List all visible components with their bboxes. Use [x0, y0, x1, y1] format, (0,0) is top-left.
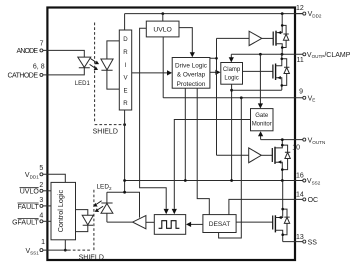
svg-text:Protection: Protection [177, 81, 206, 88]
svg-text:9: 9 [299, 89, 303, 96]
arrowhead into clamp logic top [229, 57, 234, 62]
wire: drive logic to clamp logic [210, 71, 216, 73]
svg-text:OC: OC [308, 197, 319, 204]
wire: VDD1 into control logic [43, 174, 65, 182]
svg-text:16: 16 [296, 173, 304, 180]
junction on VDD2 rail at UVLO [161, 12, 164, 15]
transistor Q2 (clamp MOSFET) [273, 54, 290, 90]
shield dashed line (upper) [95, 23, 123, 125]
pin 14 OC [296, 192, 318, 204]
wire: clamp source line [232, 89, 282, 91]
svg-text:R: R [123, 100, 128, 107]
UVLO box [146, 21, 179, 37]
svg-text:ANODE: ANODE [17, 48, 39, 55]
wire: SS line [283, 241, 303, 243]
junction VSS2 at clamp leg [230, 179, 233, 182]
wire: drive logic to DESAT [197, 88, 209, 214]
junction VSS2 at Q3/Q4 [281, 179, 284, 182]
svg-text:FAULT: FAULT [18, 204, 40, 211]
svg-text:Gate: Gate [255, 113, 269, 119]
wire: VOUTN bus [261, 139, 303, 141]
wire: VOUTP sense into clamp logic top [230, 54, 232, 57]
wire: buffer P input [217, 37, 250, 39]
LED1 light arrows [90, 59, 100, 71]
arrowhead into drive logic top [190, 52, 195, 57]
wire: control logic to VSS1 [64, 240, 66, 250]
gate monitor box U8 [251, 109, 274, 131]
svg-text:Clamp: Clamp [223, 67, 241, 73]
svg-text:D: D [123, 36, 128, 43]
wire: GFAULT pin to control logic [43, 220, 51, 222]
svg-text:GFAULT: GFAULT [12, 219, 39, 226]
wire: drive logic to output buffers [210, 38, 217, 155]
wire: driver to drive logic [132, 72, 168, 74]
junction: shield to driver return [123, 123, 126, 126]
svg-text:E: E [123, 87, 127, 94]
svg-text:SHIELD: SHIELD [93, 128, 118, 135]
wire: gate monitor bottom feed [260, 136, 262, 140]
pin 13 SS [296, 234, 317, 247]
wire: buffer U2 to Q1 gate [262, 37, 273, 39]
wire: VDD2 rail [125, 13, 303, 15]
driver U1 [119, 30, 131, 110]
DESAT box U9 [203, 215, 236, 233]
wire: VOUTP bus [231, 53, 302, 55]
wire: DESAT to Q4 gate [236, 221, 273, 223]
wire: driver bottom return [124, 110, 126, 192]
svg-text:1: 1 [41, 239, 45, 246]
svg-text:7: 7 [40, 40, 44, 47]
wire: UVLO to drive logic [179, 28, 192, 53]
transistor Q4 (SS MOSFET) [273, 181, 290, 242]
svg-text:SHIELD: SHIELD [79, 255, 104, 262]
svg-text:Drive Logic: Drive Logic [175, 62, 208, 69]
pin 3 FAULT [18, 197, 44, 211]
svg-text:11: 11 [297, 57, 304, 64]
wire: buffer N input [217, 154, 249, 156]
wire: DESAT bottom tie to VE [219, 98, 242, 238]
junction VOUTP at Q1/Q2 [281, 53, 284, 56]
wire: VSS1 line [43, 249, 68, 251]
pin 4 GFAULT [12, 213, 43, 227]
LED2 [97, 184, 113, 223]
wire: UVLO pin to control logic [43, 190, 51, 192]
svg-text:13: 13 [296, 234, 304, 241]
buffer U2 (VOUTP) [249, 31, 262, 45]
junction VSS1 [64, 249, 67, 252]
arrowhead into drive logic left [167, 70, 172, 75]
drive logic & overlap protection box U6 [172, 58, 210, 89]
wire: buffer U4 to LED2 anode [107, 221, 133, 223]
transistor Q1 (pull-up MOSFET) [273, 14, 289, 55]
wire: UVLO bottom to VE [162, 37, 164, 98]
wire: FAULT pin to control logic [43, 205, 51, 207]
junction VSS2 at driver return [123, 179, 126, 182]
svg-text:I: I [125, 62, 127, 69]
svg-text:4: 4 [39, 213, 43, 220]
arrowhead into gate monitor top [258, 103, 263, 108]
svg-text:CATHODE: CATHODE [8, 73, 39, 80]
junction LED2 rail / driver return [123, 191, 126, 194]
pin 16 VSS2 [296, 173, 321, 186]
svg-text:Monitor: Monitor [252, 121, 272, 127]
svg-text:5: 5 [39, 165, 43, 172]
wire: drive logic ground leg [184, 88, 186, 180]
junction clamp source [230, 89, 233, 92]
photodiode PD1 [101, 41, 120, 89]
junction VSS2 at drive logic leg [184, 179, 187, 182]
wire: VSS2 bus [125, 180, 303, 182]
svg-text:3: 3 [39, 197, 43, 204]
svg-text:10: 10 [292, 144, 300, 151]
wire: gate monitor top feed [259, 54, 261, 103]
arrowhead into pulse gen top (right) [172, 209, 177, 214]
buffer U4 (LED2 driver, points left) [133, 216, 146, 229]
shield dashed line (lower) [68, 189, 94, 250]
wire: UVLO left to pulse gen [140, 28, 167, 209]
pin 11 VOUTP/CLAMP [297, 52, 350, 64]
wire: OC line into DESAT [229, 199, 303, 214]
pin 12 VDD2 [295, 5, 322, 18]
wire: LED2 cathode rail [107, 192, 140, 217]
pulse generator box U10 [154, 215, 185, 235]
svg-text:12: 12 [296, 5, 304, 12]
svg-text:LED1: LED1 [75, 81, 91, 87]
svg-text:6, 8: 6, 8 [33, 64, 45, 71]
junction at buffer feed [215, 57, 218, 60]
svg-text:UVLO: UVLO [153, 27, 172, 34]
junction VOUTN [281, 138, 284, 141]
LED1 [75, 57, 91, 87]
pin 9 VE [299, 89, 315, 103]
pin 5 VDD1 [25, 165, 43, 180]
arrowhead into clamp logic [215, 70, 220, 75]
wire: clamp logic to Q2 gate [243, 70, 273, 72]
junction on VDD2 rail at Q1 [281, 12, 284, 15]
arrowhead into gate monitor bottom [258, 131, 263, 136]
pin 7 ANODE [17, 40, 44, 55]
junction VOUTP gate monitor tap [259, 53, 262, 56]
svg-text:Control Logic: Control Logic [56, 190, 65, 233]
wire: gate monitor left to pulse gen [174, 120, 250, 209]
control logic box U5 [51, 182, 76, 239]
pin 10 VOUTN [292, 137, 325, 151]
arrowhead into pulse gen top (left) [164, 209, 169, 214]
wire: pulse gen to buffer U4 [146, 221, 154, 223]
photodiode PD2 [76, 210, 94, 232]
buffer U3 (VOUTN) [249, 148, 262, 163]
wire: driver top to VDD2 rail [124, 14, 126, 30]
pin 6,8 CATHODE [8, 64, 45, 80]
LED2 light arrows [93, 201, 103, 212]
IC package border [47, 8, 295, 261]
svg-text:DESAT: DESAT [209, 221, 231, 228]
wire: buffer U3 to Q3 gate [261, 154, 272, 156]
wire: VE bus [163, 97, 303, 99]
svg-text:14: 14 [296, 192, 304, 199]
wire: UVLO top tie [162, 14, 164, 22]
svg-text:UVLO: UVLO [20, 189, 40, 196]
clamp logic box U7 [221, 63, 243, 85]
wire: clamp logic bottom leg [231, 84, 233, 180]
pin 2 UVLO [20, 182, 44, 196]
transistor Q3 (pull-down MOSFET) [272, 140, 290, 181]
svg-text:R: R [123, 49, 128, 56]
svg-text:& Overlap: & Overlap [177, 72, 206, 79]
svg-text:SS: SS [308, 239, 318, 246]
svg-text:2: 2 [39, 182, 43, 189]
pin 1 VSS1 [25, 239, 45, 255]
arrowhead into pulse gen right [186, 222, 191, 227]
LED1 input loop wire [43, 50, 84, 75]
svg-text:Logic: Logic [224, 75, 238, 81]
junction VE/DESAT sense [240, 96, 243, 99]
wire: DESAT to pulse gen [191, 223, 203, 225]
